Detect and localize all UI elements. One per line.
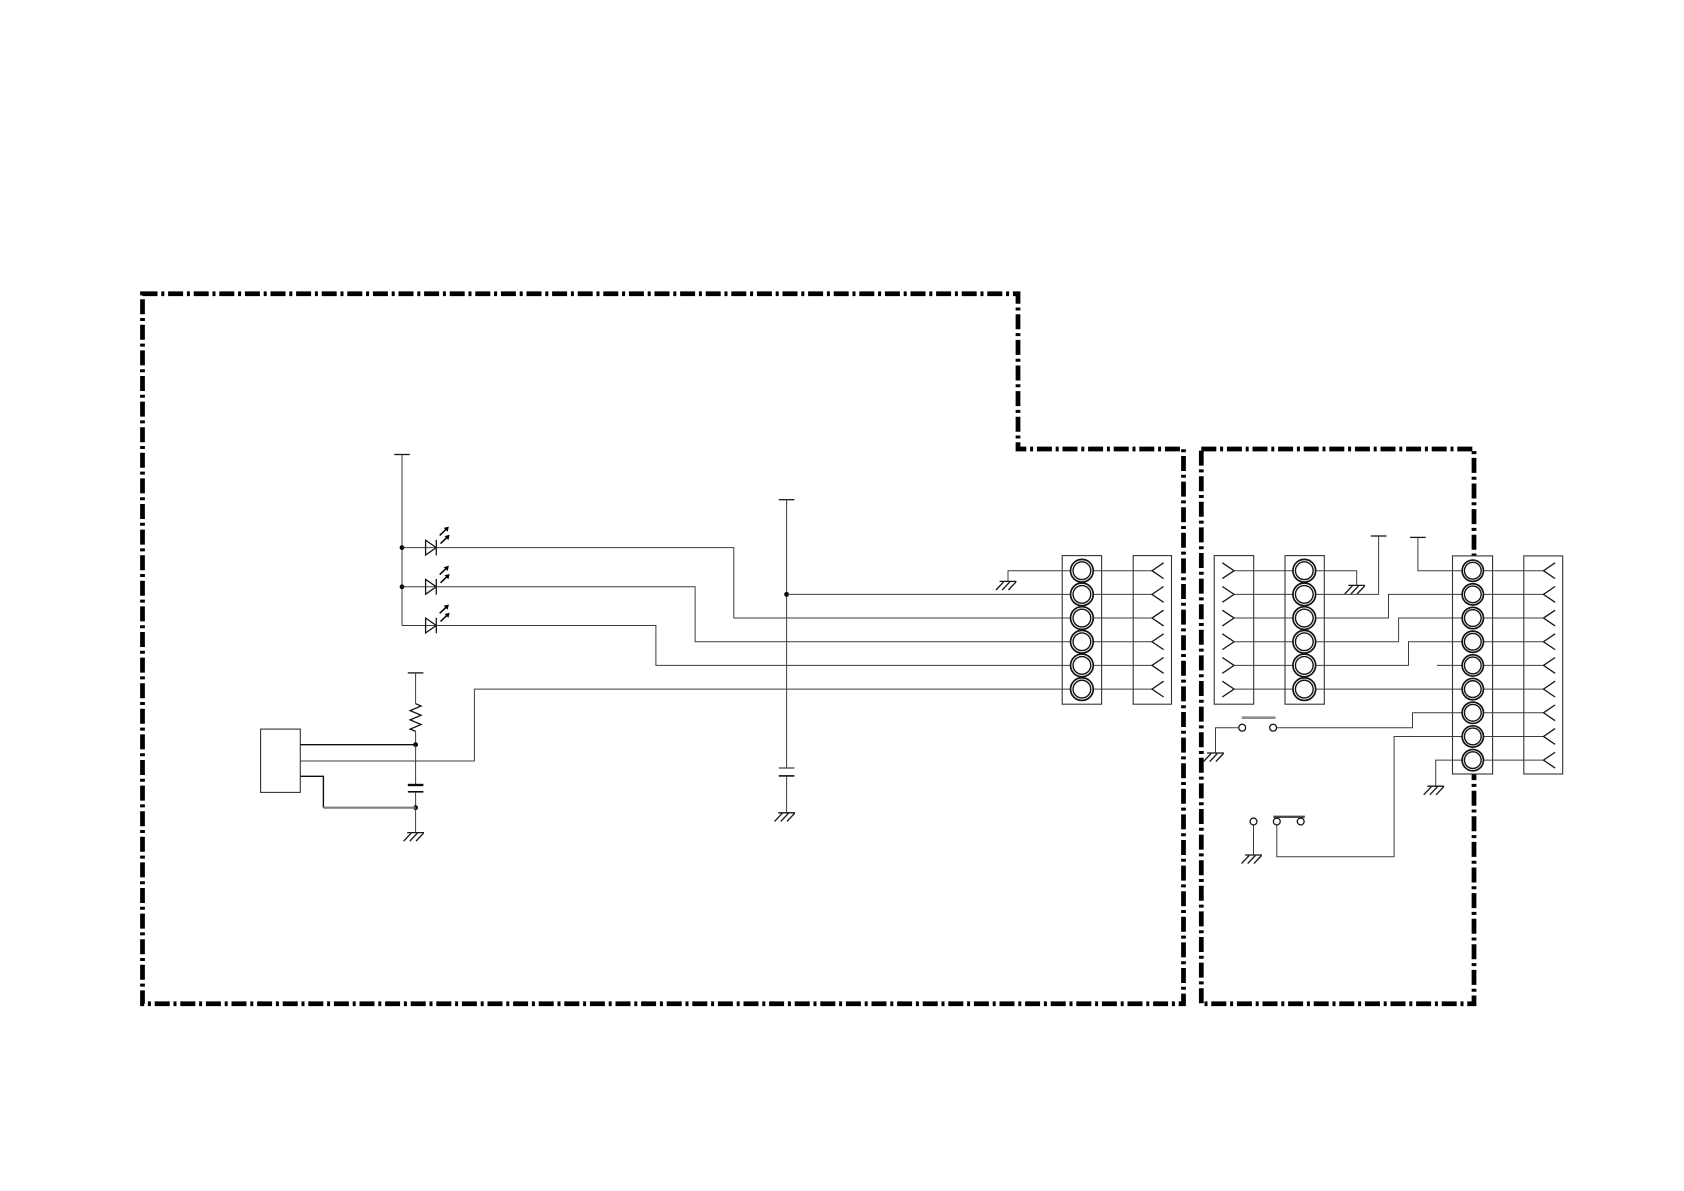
wire: rail junction to CN1 pin 2 — [787, 593, 1071, 595]
wire: CN3 pin 3 to plug P3 — [1484, 617, 1543, 619]
power rail V+ (LED anode supply) — [394, 454, 410, 456]
power rail V+ (CN3 pin 1) — [1410, 536, 1426, 538]
junction: rail / LED D1 — [400, 545, 405, 550]
wire: node B to ground — [415, 808, 417, 833]
wire: S2 common to ground — [1253, 825, 1255, 855]
ground (below C2) — [404, 833, 424, 842]
junction node B — [413, 805, 418, 810]
wire: D1 cathode to CN1 pin 3 — [436, 548, 1070, 618]
wire: rail to D1 — [402, 547, 436, 549]
connector CN2 pins 1-6 — [1293, 559, 1316, 700]
ground (below C1) — [775, 813, 795, 822]
wire: CN1 pin 1 to plug P1 — [1093, 570, 1152, 572]
wire: C2 to node B — [415, 792, 417, 808]
ground (CN3 pin 9) — [1424, 786, 1444, 795]
junction: rail / CN1 pin 2 wire — [784, 592, 789, 597]
wire: CN1 pin 4 to plug P1 — [1093, 641, 1152, 643]
resistor R1 — [410, 704, 421, 732]
wire: node A to capacitor C2 — [415, 745, 417, 785]
LED D2 — [426, 566, 450, 595]
power rail V+ (pull-up) — [408, 672, 424, 674]
wire: CN3 pin 5 to plug P3 — [1484, 664, 1543, 666]
wire: rail to D3 — [402, 625, 436, 627]
wire: LED anode rail — [401, 455, 403, 626]
wire: CN3 pin 6 to plug P3 — [1484, 688, 1543, 690]
connector CN1 pins 1-6 — [1071, 559, 1094, 700]
wire: plug P2 to CN2 pin 6 — [1234, 688, 1293, 690]
capacitor C1 — [779, 768, 795, 776]
wire: CN3 pin 9 to plug P3 — [1484, 759, 1543, 761]
wire: plug P2 to CN2 pin 2 — [1234, 593, 1293, 595]
wire: R1 to node A — [415, 731, 417, 744]
plug P3 chevron contacts 1-9 — [1544, 563, 1556, 768]
capacitor C2 — [408, 785, 424, 792]
wire: U1 pin 3 to node B — [300, 776, 323, 807]
plug P2 body — [1214, 556, 1254, 705]
plug P3 body — [1524, 556, 1563, 774]
wire: plug P2 to CN2 pin 4 — [1234, 641, 1293, 643]
ground (S2) — [1242, 855, 1262, 864]
wire: CN1 pin 2 to plug P1 — [1093, 593, 1152, 595]
wire: CN3 pin 9 to ground — [1436, 760, 1462, 786]
LED D1 — [426, 527, 450, 556]
wire: D3 cathode to CN1 pin 5 — [436, 626, 1070, 666]
wire: CN1 pin 5 to plug P1 — [1093, 664, 1152, 666]
switch S1 lever — [1242, 716, 1276, 719]
switch S2 lever — [1273, 816, 1304, 818]
wire: CN3 pin 1 to plug P3 — [1484, 570, 1543, 572]
wire stub: CN3 pin 5 — [1437, 664, 1462, 666]
wire: CN1 pin 3 to plug P1 — [1093, 617, 1152, 619]
wire: D2 cathode to CN1 pin 4 — [436, 587, 1070, 642]
component box U1 — [261, 729, 301, 792]
connector CN3 body — [1453, 556, 1493, 774]
wire: S1 to CN3 pin 7 — [1277, 713, 1462, 728]
wire: S2 to CN3 pin 8 — [1277, 736, 1462, 856]
board outline (left unit, dash-dot) — [143, 294, 1184, 1004]
wire: rail to resistor R1 — [415, 673, 417, 704]
switch S1 contacts — [1239, 724, 1277, 731]
wire: rail to capacitor C1 — [786, 500, 788, 768]
plug P1 body — [1133, 556, 1171, 705]
wire: CN3 pin 2 to plug P3 — [1484, 593, 1543, 595]
plug P1 chevron contacts 1-6 — [1152, 563, 1164, 697]
ground (S1) — [1204, 753, 1224, 762]
wire: U1 pin 1 to node A — [300, 744, 415, 746]
wire: CN3 pin 8 to plug P3 — [1484, 735, 1543, 737]
wire: node B bottom run — [323, 807, 415, 809]
plug P2 chevron contacts 1-6 — [1222, 563, 1234, 697]
wire: S1 to ground — [1216, 728, 1239, 753]
ground (CN2 pin 1) — [1345, 585, 1365, 594]
wire: CN2 pin 1 to ground — [1316, 571, 1357, 586]
junction node A — [413, 742, 418, 747]
wire: CN3 pin 4 to plug P3 — [1484, 641, 1543, 643]
power rail V+ (CN2 pin 2) — [1371, 535, 1387, 537]
power rail V+ (filter) — [779, 499, 795, 501]
ground (CN1 pin 1) — [996, 581, 1016, 590]
wire: CN2 pin 6 to CN3 pin 6 — [1316, 688, 1462, 690]
connector CN3 pins 1-9 — [1462, 560, 1483, 771]
wire: plug P2 to CN2 pin 3 — [1234, 617, 1293, 619]
wire: CN1 pin 1 to ground — [1008, 571, 1070, 582]
connector CN2 body — [1285, 556, 1324, 705]
wire: CN2 pin 4 to CN3 pin 3 — [1316, 618, 1462, 642]
wire: CN2 pin 3 to CN3 pin 2 — [1316, 594, 1462, 618]
LED D3 — [426, 605, 450, 634]
junction: rail / LED D2 — [400, 584, 405, 589]
wire: CN1 pin 6 to plug P1 — [1093, 688, 1152, 690]
wire: CN3 pin 7 to plug P3 — [1484, 712, 1543, 714]
wire: C1 to ground — [786, 776, 788, 813]
wire: power rail to CN3 pin 1 — [1418, 537, 1462, 570]
wire: CN2 pin 5 to CN3 pin 4 — [1316, 642, 1462, 666]
wire: plug P2 to CN2 pin 5 — [1234, 664, 1293, 666]
wire: rail to D2 — [402, 586, 436, 588]
wire: CN2 pin 2 to power rail — [1316, 536, 1379, 594]
connector CN1 body — [1062, 556, 1101, 705]
wire: plug P2 to CN2 pin 1 — [1234, 570, 1293, 572]
wire: U1 pin 2 to CN1 pin 6 — [300, 689, 1070, 761]
board outline (right unit, dash-dot) — [1201, 449, 1474, 1004]
switch S2 contacts — [1250, 818, 1304, 825]
